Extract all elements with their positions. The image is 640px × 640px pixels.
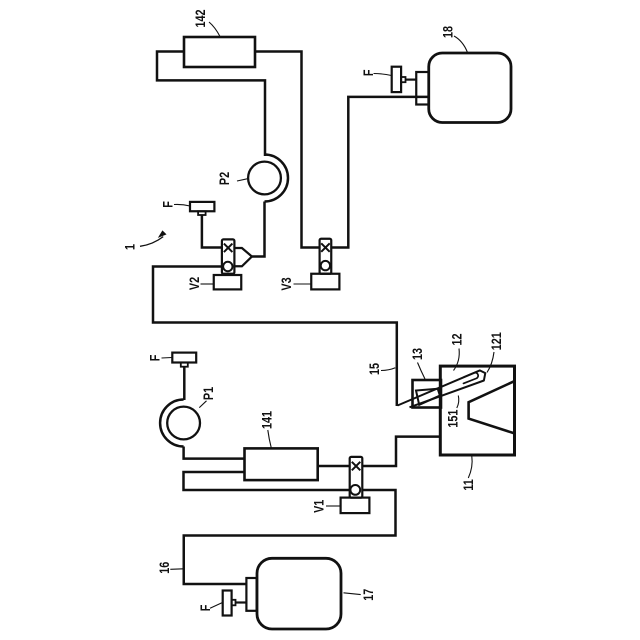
- leader P1: [199, 401, 206, 408]
- leader lines: [140, 22, 494, 608]
- svg-text:F: F: [198, 604, 213, 611]
- sensor F upper stub: [198, 211, 206, 215]
- wire pump P2 outlet down to valve V2 nozzle: [252, 202, 265, 257]
- sensor F (tank 18): [392, 67, 401, 92]
- valve V1 body: [350, 457, 363, 498]
- valve V2 body: [222, 239, 235, 273]
- valve V2 actuator circle: [223, 262, 232, 271]
- pump P1 housing arc: [160, 400, 184, 447]
- spray cone in funnel 13: [416, 389, 440, 405]
- leader 141: [268, 430, 272, 448]
- svg-text:12: 12: [450, 333, 465, 345]
- svg-text:17: 17: [361, 589, 376, 601]
- pump P1 circle: [167, 407, 200, 440]
- funnel box 13: [413, 380, 442, 408]
- arrowhead for reference arrow 1: [159, 231, 166, 237]
- leader F tank17: [210, 603, 223, 609]
- valve V1 actuator circle: [350, 485, 360, 495]
- chamber 11 body: [440, 366, 514, 455]
- valve V1 X mark: [352, 462, 361, 471]
- svg-text:13: 13: [410, 348, 425, 360]
- tank 17 port: [246, 578, 256, 611]
- valve V2 X mark: [224, 244, 233, 253]
- labels (rotated -90): [122, 9, 504, 611]
- leader 13: [418, 363, 426, 380]
- pipe from valve V2 left port to pipe 15 and lance feed: [153, 267, 397, 407]
- svg-text:15: 15: [367, 363, 382, 375]
- pump P2 circle: [248, 162, 281, 195]
- sensor F (tank 17): [223, 591, 232, 616]
- wire sensor F down to pump P1: [183, 367, 186, 400]
- valve V2 solenoid box: [214, 275, 242, 289]
- tank 18 body: [429, 53, 511, 123]
- svg-text:V1: V1: [311, 500, 326, 513]
- valve V3 actuator circle: [321, 261, 330, 270]
- leader V1: [326, 505, 340, 507]
- sensor F (upper, at V2): [190, 202, 214, 211]
- wire 141 lower-left port loop to V1 circle level and tank 17: [184, 472, 396, 584]
- svg-text:151: 151: [446, 409, 461, 427]
- component 141 box: [245, 448, 318, 480]
- wire from 142 right port down to valve V3 left port: [255, 52, 320, 248]
- leader 12: [454, 349, 460, 371]
- leader 17: [344, 593, 361, 595]
- leader V3: [294, 283, 312, 285]
- leader V2: [201, 283, 214, 285]
- svg-text:F: F: [361, 69, 376, 76]
- tank 17 body: [257, 558, 341, 629]
- leader P2: [237, 179, 248, 181]
- valve V3 solenoid box: [311, 274, 339, 290]
- svg-text:V3: V3: [279, 277, 294, 290]
- pump P2 housing arc: [265, 155, 289, 202]
- svg-text:1: 1: [122, 244, 137, 250]
- leader 142: [209, 22, 220, 37]
- svg-text:P1: P1: [201, 387, 216, 400]
- leader 11: [468, 456, 472, 478]
- svg-text:16: 16: [157, 562, 172, 574]
- sensor F tank17 stub: [232, 600, 236, 606]
- wire P1 outlet to 141 top-left port: [184, 447, 245, 459]
- valve V1 solenoid box: [341, 498, 370, 513]
- leader 151: [457, 396, 459, 409]
- lance 12 inner tip hook 121: [464, 373, 479, 384]
- leader F mid: [162, 357, 173, 360]
- svg-text:142: 142: [193, 9, 208, 27]
- leader F tank18: [374, 74, 392, 76]
- svg-text:18: 18: [440, 26, 455, 38]
- valve V2 nozzle pentagon: [234, 248, 252, 266]
- wire sensor F to tank 17 port: [236, 601, 247, 603]
- wire sensor F to valve V2 left port: [202, 215, 222, 248]
- svg-text:F: F: [160, 201, 175, 208]
- funnel cone inside chamber 11: [469, 381, 515, 433]
- wire V1 X-level: from 141 right to chamber 11: [318, 437, 441, 466]
- wire from 142 left port down-right to pump P2 inlet: [157, 52, 265, 157]
- arrow 1 curve: [140, 237, 163, 247]
- svg-text:141: 141: [259, 411, 274, 429]
- svg-text:11: 11: [461, 479, 476, 491]
- valve V3 body: [320, 239, 332, 274]
- svg-text:V2: V2: [187, 277, 202, 290]
- svg-text:121: 121: [489, 332, 504, 350]
- sensor F (mid, at P1): [172, 353, 196, 363]
- tank 18 port: [416, 72, 429, 105]
- leader 15: [381, 368, 395, 371]
- leader 18: [454, 36, 468, 53]
- leader 121: [487, 352, 494, 373]
- sensor F mid stub: [181, 363, 188, 367]
- sensor F tank18 stub: [401, 77, 405, 82]
- svg-text:F: F: [147, 354, 162, 361]
- component 142 (condenser box): [184, 37, 255, 67]
- leader 16: [170, 568, 183, 571]
- valve V3 X mark: [321, 243, 330, 252]
- wire valve V3 right port up to tank 18: [331, 97, 429, 248]
- lance 12 tube: [398, 370, 486, 407]
- wire sensor F to tank 18 port: [406, 78, 417, 80]
- svg-text:P2: P2: [217, 172, 232, 185]
- leader F upper: [174, 204, 190, 206]
